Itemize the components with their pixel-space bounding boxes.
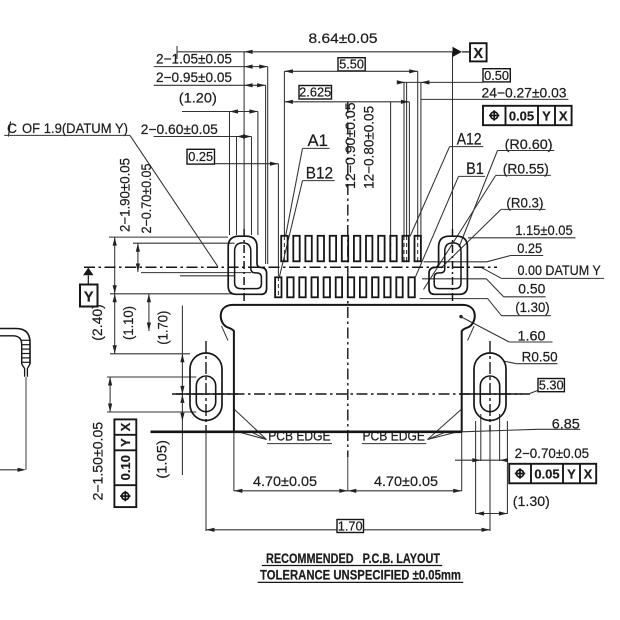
extension line / leader 24-0.27 <box>420 82 422 235</box>
dim line 4.70 <box>234 490 462 492</box>
side view rib <box>22 344 30 346</box>
svg-text:2−0.60±0.05: 2−0.60±0.05 <box>141 122 218 137</box>
svg-text:8.64±0.05: 8.64±0.05 <box>309 31 378 46</box>
leader PCB EDGE right 3 <box>428 432 446 439</box>
extension line 2-0.60 right <box>251 137 253 236</box>
left shield slot centreline <box>243 229 245 301</box>
svg-text:(R0.55): (R0.55) <box>503 162 549 177</box>
svg-text:0.00 DATUM Y: 0.00 DATUM Y <box>518 263 601 278</box>
extension line 2-0.70 left <box>480 414 482 461</box>
datum Y flag triangle <box>83 268 93 276</box>
svg-text:24−0.27±0.03: 24−0.27±0.03 <box>482 86 567 101</box>
extension line 1.70 left (hole centre) <box>205 432 207 532</box>
extension line bottom pad row top <box>180 275 235 277</box>
basic dim box 0.50 <box>483 69 510 82</box>
dim line 2-0.70 right <box>455 459 508 461</box>
body ear seam right <box>468 326 475 341</box>
svg-text:4.70±0.05: 4.70±0.05 <box>253 474 317 489</box>
datum X flag triangle <box>453 47 462 57</box>
svg-text:Y: Y <box>118 438 133 447</box>
svg-text:OF 1.9(DATUM Y): OF 1.9(DATUM Y) <box>22 121 128 136</box>
svg-text:1.70: 1.70 <box>338 518 363 533</box>
svg-text:1.60: 1.60 <box>518 328 546 343</box>
left shield pad inner contour <box>235 243 262 289</box>
body ear seam left <box>222 326 229 341</box>
leader 0.25 right <box>424 256 511 262</box>
leader B1 <box>416 176 459 276</box>
dim line (1.70)/(1.05) <box>181 306 183 476</box>
underline 24-0.27 <box>421 98 569 100</box>
leader A1 <box>286 148 303 236</box>
svg-text:2−0.95±0.05: 2−0.95±0.05 <box>156 70 232 85</box>
extension line 8.64 left tail <box>176 46 178 59</box>
dim line 2.625 <box>284 101 409 103</box>
dim line 2-0.95 <box>154 84 266 86</box>
extension line 2-0.60 left <box>236 137 238 236</box>
dim line 1.70 <box>206 529 490 531</box>
PCB edge bottom line <box>151 430 462 433</box>
basic dim box 2.625 <box>299 86 332 100</box>
right shield slot centreline <box>452 229 454 301</box>
dim line (2.40) <box>114 294 116 354</box>
extension line pad A10 <box>390 102 392 235</box>
arrowhead 8.64 left <box>244 50 253 54</box>
feature control frame top right <box>483 106 572 125</box>
top pad row A1-A12 (12 pads 0.27 wide) <box>281 236 287 261</box>
dim line (1.30) bottom right <box>476 513 508 515</box>
right shield pad inner contour <box>434 243 461 289</box>
leader 0.50 right <box>422 279 504 297</box>
dim line 5.50 <box>284 70 417 72</box>
svg-text:4.70±0.05: 4.70±0.05 <box>374 474 438 489</box>
dim line 2-1.50 <box>109 377 111 412</box>
underline PCB EDGE left <box>267 443 332 445</box>
dim line 0.25 left <box>215 163 279 165</box>
left hole crosshair horizontal <box>176 393 238 395</box>
side view rib <box>22 353 30 355</box>
left mounting hole outer stadium <box>190 353 222 421</box>
bottom pad row B12-B1 (12 pads 0.27 wide) <box>275 277 281 297</box>
svg-text:X: X <box>559 109 568 124</box>
leader A12 <box>410 147 450 237</box>
svg-text:0.25: 0.25 <box>188 149 213 164</box>
extension line 2-0.70 right <box>499 414 501 461</box>
extension line shield foot top <box>141 272 251 274</box>
svg-text:0.50: 0.50 <box>484 68 509 83</box>
svg-text:X: X <box>473 46 483 62</box>
extension line (1.20) left <box>229 112 231 236</box>
extension line pad A11 right <box>406 82 408 235</box>
datum Y box <box>80 285 98 307</box>
svg-text:2−0.70±0.05: 2−0.70±0.05 <box>515 446 590 461</box>
extension line shield slot top <box>133 242 235 244</box>
extension line top pad A12 centre <box>417 71 419 235</box>
leader of C/L note <box>130 135 218 266</box>
svg-text:A12: A12 <box>457 130 482 148</box>
side view rib <box>22 339 30 341</box>
extension line left shield slot centre <box>243 52 245 229</box>
extension line 4.70 right <box>461 432 463 491</box>
svg-text:2−1.50±0.05: 2−1.50±0.05 <box>91 422 106 501</box>
svg-text:A1: A1 <box>308 132 328 150</box>
extension line dashed through bottom pad <box>277 277 279 298</box>
side view dim line <box>0 469 18 471</box>
extension line hole slot bottom <box>107 411 196 413</box>
vertical centreline extension <box>347 457 349 491</box>
leader (R0.60) <box>459 151 498 248</box>
extension line hole slot top <box>107 376 196 378</box>
extension line shield pad top <box>109 236 228 238</box>
svg-text:0.25: 0.25 <box>517 241 542 256</box>
dim line (1.20) <box>182 111 258 113</box>
dim line 2-0.60 <box>154 136 252 138</box>
extension line (1.20) right <box>257 112 259 236</box>
extension line 1.70 right (hole centre) <box>489 432 491 532</box>
dim line 2-1.90 <box>114 237 116 294</box>
leader (1.30) right <box>420 299 502 316</box>
extension line dashed through top pad <box>406 236 408 262</box>
svg-text:0.05: 0.05 <box>534 467 559 482</box>
underline of C/L note <box>4 134 130 136</box>
extension line hole top <box>110 353 190 355</box>
right shield pad outer contour <box>429 236 467 294</box>
svg-text:0.05: 0.05 <box>509 109 534 124</box>
basic dim box 0.25 left <box>187 149 215 164</box>
left shield pad outer contour <box>228 236 266 294</box>
side view rib <box>22 361 30 363</box>
leader R0.50 <box>504 361 517 364</box>
svg-text:(1.10): (1.10) <box>121 306 136 340</box>
svg-text:R0.50: R0.50 <box>522 350 558 365</box>
underline B1 <box>459 175 486 177</box>
svg-text:2−0.70±0.05: 2−0.70±0.05 <box>139 163 154 233</box>
extension line (1.30) left <box>475 421 477 514</box>
underline PCB EDGE right <box>362 443 427 445</box>
extension line 4.70 left <box>233 432 235 491</box>
svg-text:2.625: 2.625 <box>299 85 331 100</box>
svg-text:2−1.05±0.05: 2−1.05±0.05 <box>156 52 232 67</box>
leader 6.85 <box>462 429 538 432</box>
extension line dashed through top pad <box>420 236 422 262</box>
extension line shield pad bottom <box>110 293 233 295</box>
side view rib <box>22 348 30 350</box>
svg-text:B12: B12 <box>306 164 333 182</box>
underline A12 <box>450 146 484 148</box>
basic dim box 5.30 <box>538 379 564 392</box>
svg-text:5.50: 5.50 <box>339 57 364 72</box>
dim line 0.50 <box>397 81 483 83</box>
leader PCB EDGE left 3 <box>252 432 267 439</box>
svg-text:(1.05): (1.05) <box>155 440 170 479</box>
svg-text:(2.40): (2.40) <box>90 304 105 341</box>
svg-text:(1.30): (1.30) <box>515 300 550 315</box>
leader 0.00 DATUM Y <box>481 267 502 278</box>
svg-text:(1.70): (1.70) <box>155 311 170 345</box>
svg-text:5.30: 5.30 <box>539 378 564 393</box>
extension line dashed through top pad <box>417 236 419 262</box>
right mounting hole outer stadium <box>474 353 506 421</box>
svg-text:Y: Y <box>567 467 576 482</box>
leader PCB EDGE left 1 <box>234 409 267 440</box>
side view rib <box>22 357 30 359</box>
title underline 1 <box>262 565 442 567</box>
svg-text:12−0.90±0.05: 12−0.90±0.05 <box>343 102 358 189</box>
svg-text:Y: Y <box>542 109 551 124</box>
right hole centreline vertical <box>489 341 491 432</box>
svg-text:B1: B1 <box>466 160 484 178</box>
leader B12 <box>280 181 303 277</box>
side view pin extension line <box>25 377 27 470</box>
extension line pad A11 left <box>403 82 405 235</box>
extension line right shield slot centre <box>452 52 454 229</box>
basic dim box 1.70 <box>337 520 364 533</box>
leader (R0.55) <box>424 175 496 289</box>
title underline 2 <box>258 581 464 583</box>
side view dim arrow <box>18 468 27 472</box>
leader 1.15 <box>468 237 576 239</box>
svg-text:12−0.80±0.05: 12−0.80±0.05 <box>362 106 377 189</box>
svg-text:0.50: 0.50 <box>518 282 545 297</box>
left mounting hole inner slot <box>196 376 215 412</box>
extension line dashed through top pad <box>403 236 405 262</box>
extension line bottom pad B12 centre <box>277 164 279 276</box>
extension line dashed through top pad <box>283 236 285 262</box>
svg-text:(1.20): (1.20) <box>179 91 217 106</box>
svg-text:X: X <box>118 422 133 431</box>
svg-text:(R0.3): (R0.3) <box>506 195 543 210</box>
svg-text:Y: Y <box>84 290 94 306</box>
svg-text:1.15±0.05: 1.15±0.05 <box>515 223 573 238</box>
extension line dashed through top pad <box>390 236 392 262</box>
leader PCB EDGE right 1 <box>428 409 462 440</box>
hole centreline horizontal <box>172 393 530 395</box>
feature control frame left (vertical) <box>114 419 136 507</box>
underline A1 <box>303 147 330 149</box>
side view pin taper <box>22 364 30 377</box>
extension line (1.30) right <box>506 421 508 514</box>
svg-text:RECOMMENDED P.C.B. LAYOUT: RECOMMENDED P.C.B. LAYOUT <box>266 551 441 566</box>
extension line 2.625 right <box>408 102 410 236</box>
svg-text:(R0.60): (R0.60) <box>505 137 553 152</box>
stub 5.30 <box>530 390 538 393</box>
leader 1.60 <box>462 317 510 342</box>
dim line 2-0.70 left <box>137 243 139 272</box>
svg-text:0.10: 0.10 <box>118 455 133 480</box>
left hole centreline vertical <box>205 341 207 432</box>
basic dim box 5.50 <box>338 58 365 71</box>
svg-text:TOLERANCE UNSPECIFIED ±0.05mm: TOLERANCE UNSPECIFIED ±0.05mm <box>260 567 461 582</box>
datum Y flag stem <box>87 275 89 284</box>
dim line (1.10) <box>148 294 150 331</box>
leader PCB EDGE right 2 <box>428 431 462 440</box>
dim line 8.64 <box>177 51 453 53</box>
right hole crosshair horizontal <box>460 393 522 395</box>
vertical centreline <box>347 102 349 457</box>
svg-text:2−1.90±0.05: 2−1.90±0.05 <box>117 158 132 232</box>
extension line top pad A1 centre <box>283 71 285 235</box>
underline B12 <box>303 180 335 182</box>
leader (R0.3) <box>441 209 501 268</box>
side view: connector profile <box>0 329 30 365</box>
right mounting hole inner slot <box>480 376 499 412</box>
svg-text:(1.30): (1.30) <box>513 494 550 509</box>
extension line 2-0.95 right <box>265 85 267 264</box>
feature control frame bottom right <box>509 464 596 484</box>
dim line 2-1.05 <box>154 66 268 68</box>
datum X flag stem <box>462 51 470 53</box>
connector body outline <box>221 305 475 432</box>
leader PCB EDGE left 2 <box>234 431 267 440</box>
extension line 2-1.05 right <box>267 67 269 264</box>
svg-text:X: X <box>584 467 593 482</box>
datum X box <box>470 43 487 61</box>
horizontal datum Y centreline <box>84 266 497 268</box>
